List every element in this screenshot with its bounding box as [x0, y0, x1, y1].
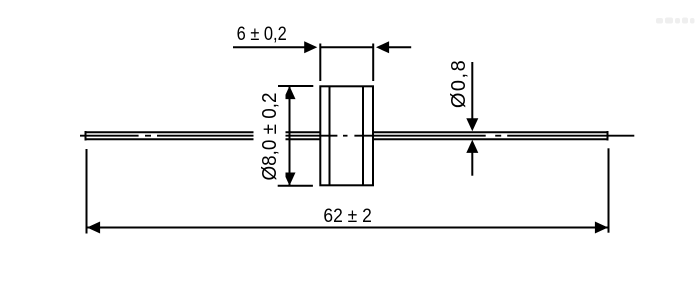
dimension 62 ± 2 (overall length) [87, 148, 609, 233]
svg-text:6 ± 0,2: 6 ± 0,2 [237, 23, 287, 45]
dimension Ø8,0 ± 0,2 (body diameter) [254, 86, 314, 186]
faint watermark top-right [656, 18, 695, 24]
diode body [320, 86, 373, 185]
lead wire right [373, 131, 609, 141]
body inner edge right [362, 86, 364, 185]
lead wire left [85, 131, 321, 141]
dimension 6 ± 0,2 (body length) [233, 23, 411, 81]
body inner edge left [329, 86, 331, 185]
svg-text:62 ± 2: 62 ± 2 [323, 204, 371, 226]
dimension Ø0,8 (lead diameter) [448, 59, 478, 176]
svg-text:Ø0,8: Ø0,8 [448, 59, 470, 108]
centerline axis dash-dot [80, 135, 634, 137]
svg-text:Ø8,0 ± 0,2: Ø8,0 ± 0,2 [259, 92, 282, 180]
